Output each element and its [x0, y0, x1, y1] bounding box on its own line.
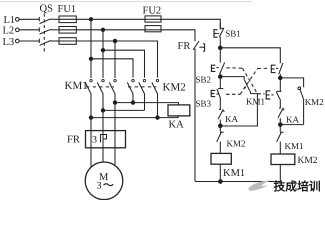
contactor KM1 pole 3: [109, 79, 116, 102]
linkage SB2 dashed diagonal: [227, 68, 265, 94]
wire FU2-2 to FR corner: [161, 30, 195, 41]
contactor KM1 pole 1: [85, 79, 92, 117]
wire merge V phase: [103, 109, 145, 111]
wire KM1 coil to bus: [219, 164, 221, 181]
wire L3 to QS: [19, 40, 39, 42]
contact KM1 NC interlock: [277, 125, 284, 154]
FR heater element symbol: [101, 135, 107, 143]
wire control bus to right branch: [220, 48, 280, 64]
KM2 self-hold branch bottom wire: [280, 124, 303, 126]
thermal relay FR box: [86, 131, 126, 148]
wire KM2 coil to bus: [279, 165, 281, 182]
wire L1 feed to KM2 pole1: [91, 59, 133, 78]
contact KA left NO: [218, 109, 224, 125]
node dot below SB1: [219, 46, 223, 50]
svg-text:3: 3: [92, 135, 97, 146]
wire QS to FU1 row2: [50, 29, 59, 31]
KM1 self-hold branch wire top: [220, 77, 244, 80]
svg-text:KM2: KM2: [163, 81, 186, 93]
KM1 linkage dashes: [86, 86, 114, 88]
svg-text:L2: L2: [3, 26, 15, 37]
KM2 self-hold branch top wire: [280, 78, 303, 87]
button SB2 right actuator E: [266, 91, 270, 99]
button SB3 right actuator E: [271, 65, 275, 72]
svg-text:FU1: FU1: [58, 4, 77, 15]
node dot below KA left: [219, 124, 223, 128]
fuse FU2-2: [145, 26, 161, 32]
node dot L1 branch: [89, 18, 92, 21]
node dot bottom bus KM1 coil: [219, 180, 223, 184]
svg-text:QS: QS: [40, 4, 54, 15]
relay coil KA box: [168, 105, 190, 116]
svg-text:FR: FR: [67, 135, 80, 146]
svg-text:FU2: FU2: [143, 6, 162, 17]
svg-text:KM2: KM2: [305, 97, 324, 107]
svg-text:3: 3: [97, 181, 102, 192]
svg-text:L3: L3: [3, 37, 15, 48]
wire U through FR to motor: [90, 118, 92, 167]
switch QS pole 3: [39, 39, 50, 46]
fuse FU1-3: [59, 38, 76, 45]
wire L2 to QS: [19, 29, 39, 31]
svg-text:KM1: KM1: [65, 80, 88, 92]
linkage arrow: [243, 86, 246, 89]
svg-text:L1: L1: [4, 15, 16, 26]
top border line: [0, 1, 252, 3]
button SB2 actuator E: [211, 65, 215, 71]
wire L1 to QS: [19, 18, 39, 20]
wire FU2-1 to control left corner: [161, 19, 220, 28]
contactor KM2 pole 3: [152, 79, 159, 117]
svg-text:SB3: SB3: [196, 98, 212, 108]
svg-text:FR: FR: [178, 41, 191, 52]
button SB3 NC (left column): [216, 77, 223, 110]
KM2 linkage dashes: [128, 86, 157, 88]
wire W through FR to motor: [114, 103, 116, 166]
button SB3 actuator E: [211, 90, 215, 96]
svg-text:KM1: KM1: [223, 168, 245, 179]
contactor KM2 pole 2: [139, 79, 146, 110]
wire FR down to bottom bus: [194, 49, 196, 182]
wire L2 feed to KM2 pole2: [103, 50, 145, 77]
svg-text:KM1: KM1: [285, 141, 304, 151]
node dot L3 branch: [113, 39, 116, 42]
svg-text:KM1: KM1: [246, 96, 265, 106]
node dot L1 to KM2 feed: [89, 57, 92, 60]
node dot merge U at KM2p3: [156, 116, 159, 119]
QS linkage dashed line: [43, 14, 45, 54]
motor M circle: [85, 162, 123, 200]
wire QS to FU1 row3: [50, 40, 59, 42]
wire L2 line FU1 to FU2: [76, 29, 145, 31]
svg-text:SB2: SB2: [196, 74, 212, 84]
contactor KM2 pole 1: [127, 79, 134, 102]
svg-text:KM2: KM2: [227, 138, 246, 148]
svg-text:KA: KA: [169, 120, 185, 131]
KM1 self-hold branch wire bottom: [220, 91, 257, 126]
switch QS pole 1: [39, 17, 50, 24]
contact KM2 NC interlock: [217, 126, 224, 154]
node dot below KA right: [279, 123, 283, 127]
node dot L2 to KM2 feed: [101, 49, 104, 52]
control: FR NC contact: [193, 41, 204, 51]
wire L3 line FU1 to corner: [76, 41, 157, 78]
node dot merge U at KM1p1: [89, 116, 92, 119]
button SB2 NO: [216, 48, 224, 77]
svg-text:KA: KA: [286, 114, 299, 124]
wire merge U phase: [91, 116, 178, 118]
wire L1 drop to KM1 pole1: [90, 19, 92, 78]
button SB1 NC: [218, 23, 224, 48]
node dot merge V at KM1p2: [101, 109, 104, 112]
fuse FU2-1: [145, 16, 161, 22]
node dot merge W at KM2p1: [131, 101, 134, 104]
node dot below SB3 right: [279, 76, 283, 80]
button SB2 NC (right column): [271, 78, 281, 109]
svg-text:KM2: KM2: [298, 156, 318, 166]
watermark swoosh: [248, 180, 272, 191]
svg-text:KA: KA: [225, 114, 238, 124]
coil KM2: [271, 154, 295, 165]
button SB1 actuator E: [214, 30, 218, 38]
wire V through FR to motor: [102, 110, 104, 162]
fuse FU1-2: [59, 27, 76, 34]
wire L1 line FU1 to FU2: [76, 18, 145, 20]
coil KM1: [211, 153, 231, 164]
wire merge W phase: [115, 103, 179, 105]
node dot merge W at KM1p3: [113, 101, 116, 104]
contact KM1 aux NO: [244, 80, 249, 91]
node L3 terminal: [15, 39, 19, 43]
wire bottom bus: [195, 181, 280, 183]
button SB3 NO (right column): [276, 63, 283, 78]
wire L2 drop to KM1 pole2: [102, 30, 104, 78]
contactor KM1 pole 2: [97, 79, 104, 110]
svg-text:技成培训: 技成培训: [274, 180, 321, 194]
switch QS pole 2: [39, 27, 50, 34]
wire QS to FU1 row1: [50, 18, 59, 20]
node L1 terminal: [15, 18, 19, 22]
svg-text:SB1: SB1: [225, 29, 241, 39]
contact KM2 aux NO: [298, 87, 304, 125]
node L2 terminal: [15, 28, 19, 32]
wire L3 drop to KM1 pole3: [114, 41, 116, 78]
linkage SB3 dashed diagonal: [226, 68, 270, 94]
node dot below SB2: [219, 75, 223, 79]
node dot L2 branch: [101, 28, 104, 31]
contact KA right NO: [278, 108, 284, 125]
fuse FU1-1: [59, 16, 76, 23]
